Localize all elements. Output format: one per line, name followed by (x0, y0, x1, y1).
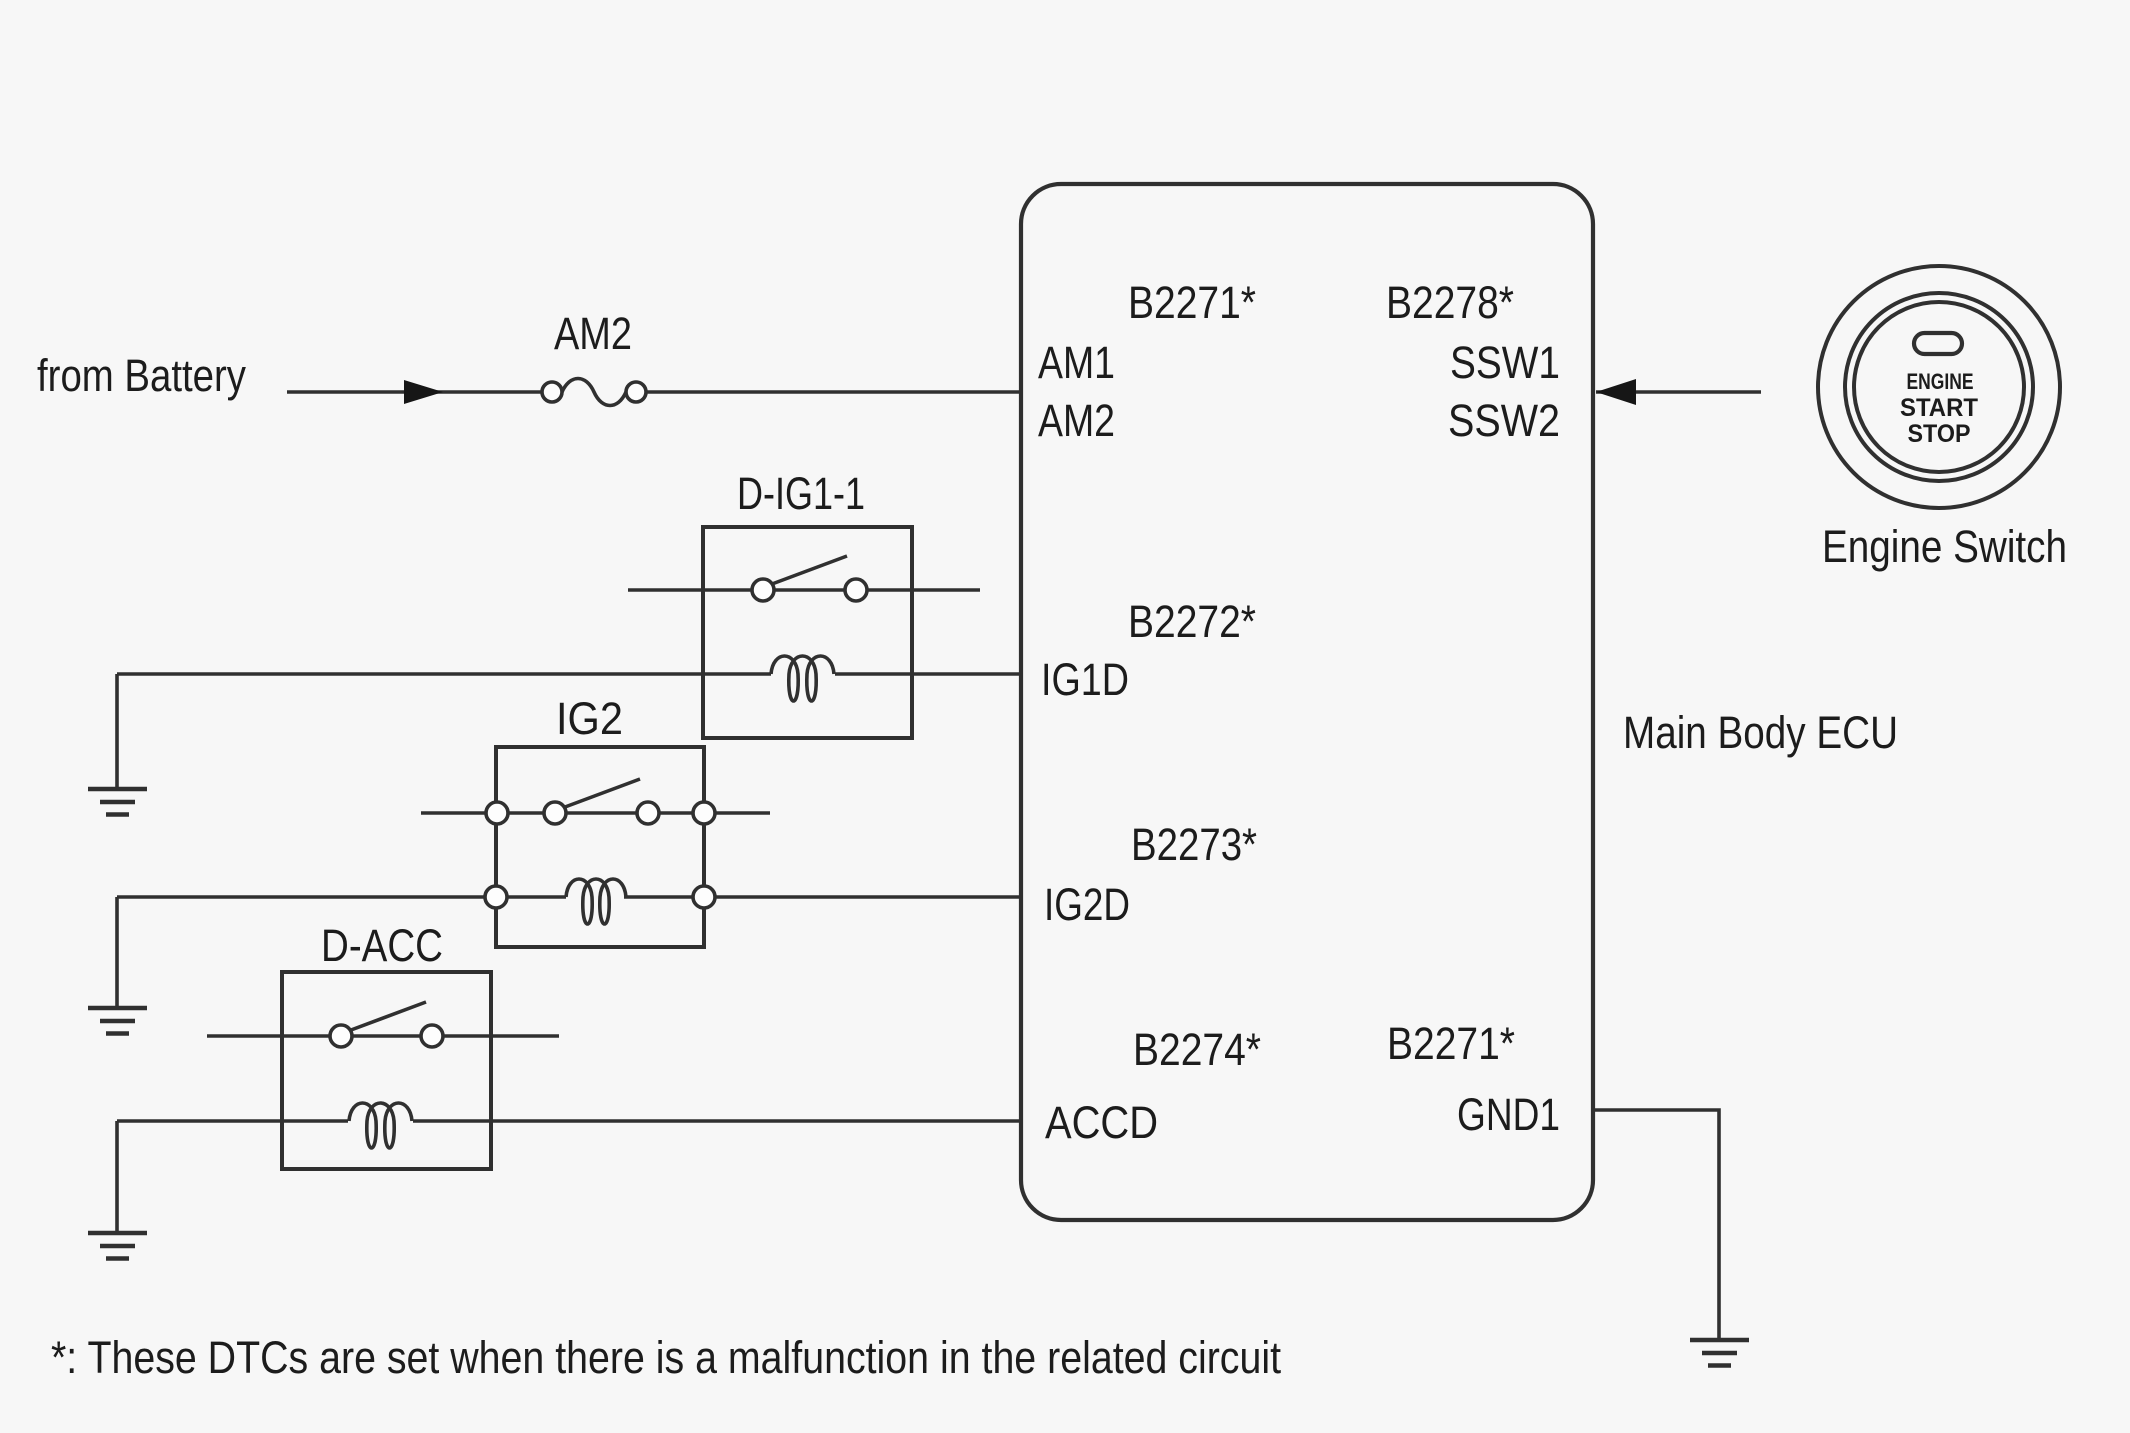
svg-text:IG1D: IG1D (1041, 654, 1129, 705)
wire D-IG1-1 switch left (628, 588, 980, 592)
svg-text:SSW2: SSW2 (1448, 395, 1560, 446)
svg-text:START: START (1900, 394, 1978, 422)
relay D-ACC switch contact left (330, 1025, 352, 1047)
arrow on battery wire (404, 380, 443, 404)
wire IG2 coil left (117, 895, 566, 899)
svg-text:B2271*: B2271* (1387, 1018, 1515, 1069)
engine switch button ring inner (1854, 302, 2024, 472)
wire to ground G3 (115, 1121, 119, 1233)
relay IG2 box (496, 747, 704, 947)
ground G2 (88, 1008, 147, 1034)
relay D-IG1-1 box (703, 527, 912, 738)
svg-text:AM2: AM2 (1038, 395, 1115, 446)
svg-text:ENGINE: ENGINE (1907, 369, 1974, 394)
svg-text:IG2D: IG2D (1044, 879, 1130, 930)
wire D-ACC coil to pin ACCD (413, 1119, 1021, 1123)
wire D-ACC switch left (207, 1034, 559, 1038)
svg-text:SSW1: SSW1 (1450, 337, 1560, 388)
engine switch button pill indicator (1914, 333, 1962, 354)
relay IG2 switch contact left (544, 802, 566, 824)
wire D-ACC coil left (117, 1119, 348, 1123)
wire to ground G1 (115, 674, 119, 789)
svg-text:Engine Switch: Engine Switch (1822, 521, 2067, 572)
svg-text:GND1: GND1 (1457, 1089, 1560, 1140)
svg-text:D-IG1-1: D-IG1-1 (737, 468, 865, 519)
svg-text:B2273*: B2273* (1131, 819, 1257, 870)
relay D-IG1-1 switch contact right (845, 579, 867, 601)
wire fuse AM2 to pins AM1/AM2 (646, 390, 1021, 394)
wire D-IG1-1 coil left (117, 672, 771, 676)
svg-text:from Battery: from Battery (37, 350, 246, 401)
relay D-IG1-1 switch contact left (752, 579, 774, 601)
relay D-ACC box (282, 972, 491, 1169)
svg-text:IG2: IG2 (556, 693, 623, 744)
ground G3 (88, 1233, 147, 1259)
wire from Battery to fuse AM2 (287, 390, 542, 394)
svg-text:B2274*: B2274* (1133, 1024, 1261, 1075)
wire IG2 coil to pin IG2D (624, 895, 1021, 899)
fuse AM2 (542, 382, 562, 402)
svg-text:B2272*: B2272* (1128, 596, 1256, 647)
wire IG2 switch left (421, 811, 770, 815)
coil IG2 (566, 879, 626, 924)
ECU box outline U1 Main Body ECU (1021, 184, 1593, 1220)
ground G4 (1690, 1340, 1749, 1366)
relay D-IG1-1 switch blade (772, 556, 847, 584)
svg-text:*: These DTCs are set when the: *: These DTCs are set when there is a ma… (51, 1332, 1281, 1383)
engine switch button ring outer (1845, 293, 2033, 481)
coil D-ACC (349, 1103, 412, 1148)
wire to ground G2 (115, 897, 119, 1008)
relay IG2 switch blade (565, 779, 640, 807)
engine switch button outer circle (1818, 266, 2060, 508)
relay D-ACC switch contact right (421, 1025, 443, 1047)
wire D-IG1-1 coil to pin IG1D (835, 672, 1021, 676)
svg-text:AM1: AM1 (1038, 337, 1115, 388)
svg-text:B2278*: B2278* (1386, 277, 1514, 328)
relay IG2 terminal circle left (486, 802, 508, 824)
svg-text:D-ACC: D-ACC (321, 920, 443, 971)
relay IG2 coil terminal circle left (485, 886, 507, 908)
coil D-IG1-1 (771, 656, 834, 701)
svg-text:STOP: STOP (1908, 420, 1971, 448)
svg-text:B2271*: B2271* (1128, 277, 1256, 328)
svg-text:Main Body ECU: Main Body ECU (1623, 707, 1898, 758)
svg-text:ACCD: ACCD (1045, 1097, 1158, 1148)
relay IG2 terminal circle right (693, 802, 715, 824)
relay D-ACC switch blade (351, 1002, 426, 1030)
relay IG2 switch contact right (637, 802, 659, 824)
arrow into SSW pins (1596, 379, 1636, 405)
wire from Engine Switch to SSW1/SSW2 pins (1596, 390, 1761, 394)
ground G1 (88, 789, 147, 815)
wire GND1 to ground G4 (1593, 1110, 1719, 1340)
svg-text:AM2: AM2 (554, 308, 632, 359)
relay IG2 coil terminal circle right (693, 886, 715, 908)
